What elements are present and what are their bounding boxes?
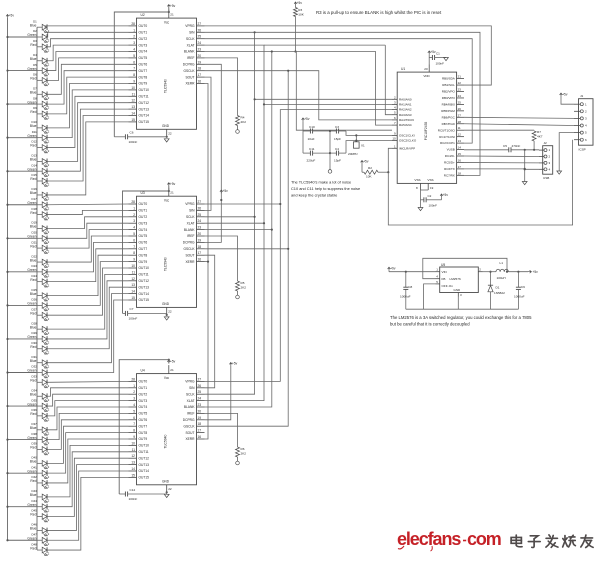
- U1 pin 5 RA3/AN3: [392, 111, 412, 117]
- IC U3 TLC5940 body: [137, 191, 197, 307]
- junction SIN U3: [254, 216, 256, 218]
- svg-text:OUT15: OUT15: [139, 476, 150, 480]
- wire LED D46 to U4 OUT13: [48, 465, 129, 531]
- U3 pin 1 OUT1: [129, 206, 148, 212]
- svg-text:D43: D43: [31, 489, 37, 493]
- svg-text:D47: D47: [31, 532, 37, 536]
- junction rail group 9: [6, 304, 8, 306]
- wire MCLR loop to ICSP: [388, 140, 572, 225]
- wire rail tap group 4: [8, 137, 38, 139]
- wire OFF-On to ground rail: [424, 284, 436, 309]
- svg-text:SIN: SIN: [189, 31, 195, 35]
- svg-text:Vcc: Vcc: [164, 20, 170, 24]
- svg-text:Blue: Blue: [30, 460, 37, 464]
- wire BLANK bus: [205, 52, 272, 408]
- svg-text:OUT7: OUT7: [139, 424, 148, 428]
- svg-text:RA1/AN1: RA1/AN1: [399, 103, 412, 107]
- U2 pin 22 GND stub: [167, 129, 172, 137]
- U1 pin 2 RA0/AN0: [392, 95, 412, 101]
- svg-text:SOUT: SOUT: [185, 253, 194, 257]
- svg-text:C2: C2: [428, 194, 432, 198]
- U1 pin 6 RA4/T0CKI: [392, 116, 414, 122]
- wire VDD to C1: [429, 54, 432, 64]
- junction rail group 8: [6, 271, 8, 273]
- svg-text:24: 24: [458, 94, 462, 98]
- U1 pin 28 RB7/PGD: [442, 120, 464, 126]
- wire ground rail: [406, 308, 519, 310]
- svg-text:RC4/D-: RC4/D-: [445, 154, 455, 158]
- svg-text:D20: D20: [31, 231, 37, 235]
- svg-text:SCLK: SCLK: [186, 392, 195, 396]
- J2 pin 4: [539, 167, 551, 171]
- svg-text:C12: C12: [130, 488, 136, 492]
- svg-text:21: 21: [170, 191, 174, 195]
- svg-text:100nF: 100nF: [129, 497, 138, 501]
- junction rail group 15: [6, 506, 8, 508]
- svg-text:Green: Green: [27, 100, 36, 104]
- svg-text:8: 8: [133, 251, 135, 255]
- power +5v DCPRG U2 U3: [220, 190, 223, 193]
- svg-text:D4: D4: [33, 53, 37, 57]
- wire regulator output: [508, 271, 528, 273]
- LED D35 (Green): [27, 398, 49, 411]
- U4 pin 16 XERR: [185, 435, 204, 441]
- svg-text:Red: Red: [30, 211, 36, 215]
- LED D6 (Red): [30, 73, 49, 86]
- svg-text:19: 19: [198, 238, 202, 242]
- svg-text:R6: R6: [241, 447, 245, 451]
- capacitor C12 100nF: [119, 488, 167, 501]
- svg-text:D30: D30: [31, 341, 37, 345]
- svg-text:Blue: Blue: [30, 91, 37, 95]
- svg-text:16: 16: [198, 80, 202, 84]
- U3 pin 18 GSCLK: [183, 245, 204, 251]
- svg-text:/MCLR/VPP: /MCLR/VPP: [399, 146, 415, 150]
- IC U5 LM2576 body: [440, 263, 479, 293]
- svg-text:Green: Green: [27, 268, 36, 272]
- svg-text:26: 26: [198, 206, 202, 210]
- U1 pin 3 RA1/AN1: [392, 100, 412, 106]
- svg-text:1: 1: [133, 206, 135, 210]
- svg-text:20: 20: [198, 54, 202, 58]
- U3 pin 11 OUT11: [129, 270, 149, 276]
- U1 pins 8 19 VSS stubs: [416, 183, 434, 190]
- svg-text:OUT6: OUT6: [139, 63, 148, 67]
- svg-text:Blue: Blue: [30, 191, 37, 195]
- wire U4 Vcc branch: [119, 360, 169, 494]
- junction R3 BLANK: [294, 50, 296, 52]
- svg-text:OUT12: OUT12: [139, 101, 150, 105]
- wire FB loop: [423, 258, 507, 278]
- junction C10 node: [329, 130, 331, 132]
- svg-text:17: 17: [458, 165, 462, 169]
- svg-text:Red: Red: [30, 479, 36, 483]
- U4 pin 13 OUT13: [129, 461, 150, 467]
- svg-text:D9: D9: [33, 106, 37, 110]
- svg-text:RA2/AN2: RA2/AN2: [399, 108, 412, 112]
- svg-text:28: 28: [131, 377, 135, 381]
- LED D20 (Green): [27, 231, 49, 244]
- LED D27 (Red): [30, 307, 49, 320]
- LED D30 (Red): [30, 341, 49, 354]
- LED D7 (Blue): [30, 87, 50, 100]
- wire R7 top to RC0: [464, 129, 534, 131]
- svg-text:R7: R7: [537, 130, 541, 134]
- svg-text:Blue: Blue: [30, 493, 37, 497]
- wire LED D44 to U4 OUT11: [48, 452, 129, 507]
- svg-text:Red: Red: [30, 345, 36, 349]
- svg-text:OUT3: OUT3: [139, 399, 148, 403]
- U1 pin 13 RC2/CCP1: [440, 139, 464, 145]
- wire XERR bus: [205, 84, 209, 440]
- wire rail tap group 11: [8, 372, 38, 374]
- wire SIN bus vertical: [205, 32, 255, 394]
- U2 pin 28 OUT0: [129, 22, 148, 28]
- svg-text:23: 23: [198, 403, 202, 407]
- svg-text:11: 11: [458, 126, 461, 130]
- J2 pin 1: [539, 148, 551, 152]
- wire GSCLK tap U3: [205, 248, 289, 250]
- svg-text:9: 9: [133, 435, 135, 439]
- U3 pin 12 OUT12: [129, 277, 150, 283]
- svg-text:RC1/T1OSI: RC1/T1OSI: [439, 135, 455, 139]
- U2 pin 11 OUT11: [129, 92, 149, 98]
- wire LED D27 to U3 OUT10: [48, 268, 129, 315]
- svg-text:com: com: [467, 529, 501, 549]
- wire LED D43 to U4 OUT10: [48, 445, 129, 497]
- capacitor C11 220uF: [303, 147, 330, 162]
- svg-text:C8: C8: [408, 285, 412, 289]
- svg-text:D15: D15: [31, 173, 37, 177]
- wire LED D48 to U4 OUT15: [48, 477, 129, 550]
- U3 pin 24 XLAT: [187, 219, 205, 225]
- watermark chinese text dian: [511, 535, 522, 547]
- svg-text:D1: D1: [496, 286, 500, 290]
- U1 pin 21 RB0/SDA: [442, 75, 464, 81]
- svg-text:4: 4: [133, 403, 135, 407]
- svg-text:OUT12: OUT12: [139, 456, 150, 460]
- svg-text:28: 28: [131, 200, 135, 204]
- svg-text:Green: Green: [27, 201, 36, 205]
- svg-text:17: 17: [198, 429, 202, 433]
- svg-text:RB3/VPO: RB3/VPO: [442, 96, 456, 100]
- U1 pin 25 RB4/KBI0: [442, 100, 464, 106]
- svg-text:RB0/SDA: RB0/SDA: [442, 77, 455, 81]
- svg-text:19: 19: [430, 186, 434, 190]
- note text LM2576: [390, 315, 532, 327]
- svg-text:OUT5: OUT5: [139, 412, 148, 416]
- junction C11 node: [329, 152, 331, 154]
- wire SOUT U3 to SIN U4: [205, 255, 215, 388]
- U2 pin 13 OUT13: [129, 105, 150, 111]
- U2 pin 15 OUT15: [129, 118, 150, 124]
- inductor L1 100uH: [483, 261, 509, 280]
- wire rail tap group 5: [8, 170, 38, 172]
- svg-text:GSCLK: GSCLK: [183, 424, 195, 428]
- IC U1 PIC18F2455 body: [397, 67, 456, 184]
- svg-text:VDD: VDD: [423, 74, 430, 78]
- svg-text:OUT7: OUT7: [139, 69, 148, 73]
- J1 pin 5: [574, 131, 587, 135]
- U4 pin 7 OUT7: [129, 422, 148, 428]
- svg-text:+5v: +5v: [223, 189, 229, 193]
- J2 pin 2: [539, 155, 551, 159]
- svg-text:15: 15: [131, 473, 135, 477]
- svg-text:RB6/PGC: RB6/PGC: [442, 115, 456, 119]
- svg-text:XERR: XERR: [185, 82, 195, 86]
- U3 pin 6 OUT6: [129, 238, 148, 244]
- svg-text:X1: X1: [361, 144, 365, 148]
- junction SIN RA0: [254, 98, 256, 100]
- U1 pin 23 RB2/VPO: [442, 88, 464, 94]
- U2 pin 26 SIN: [189, 28, 204, 34]
- svg-text:and keep the crystal stable: and keep the crystal stable: [291, 193, 337, 198]
- svg-text:OSC1/CLKI: OSC1/CLKI: [399, 134, 415, 138]
- U1 pin 17 RC6/TX: [444, 165, 464, 171]
- svg-text:OUT15: OUT15: [139, 120, 150, 124]
- svg-text:PIC18F2455: PIC18F2455: [424, 122, 428, 141]
- U1 pin 27 RB6/PGC: [442, 113, 464, 119]
- connector J1 ICSP: [579, 94, 594, 152]
- svg-text:220uF: 220uF: [307, 159, 316, 163]
- svg-text:17: 17: [198, 251, 202, 255]
- wire BLANK to PIC RA5: [272, 52, 392, 126]
- resistor R3 10K pullup: [294, 5, 305, 16]
- svg-text:Blue: Blue: [30, 359, 37, 363]
- svg-text:Red: Red: [30, 244, 36, 248]
- wire LED D11 to U2 OUT10: [48, 90, 129, 138]
- power +5v for U3: [167, 183, 170, 186]
- ground C5 J2: [522, 182, 527, 185]
- svg-text:11: 11: [132, 92, 136, 96]
- svg-text:5: 5: [133, 409, 135, 413]
- junction rail group 11: [6, 371, 8, 373]
- wire LED D24 to U3 OUT7: [48, 249, 129, 282]
- svg-text:C1: C1: [436, 52, 440, 56]
- U4 pin 15 OUT15: [129, 473, 150, 479]
- svg-text:Green: Green: [27, 469, 36, 473]
- svg-text:14: 14: [131, 290, 135, 294]
- svg-text:OUT10: OUT10: [139, 266, 150, 270]
- U4 pin 23 BLANK: [184, 403, 205, 409]
- svg-text:RA4/T0CKI: RA4/T0CKI: [399, 118, 414, 122]
- diode D1 1N5822: [488, 272, 505, 310]
- svg-text:D23: D23: [31, 264, 37, 268]
- svg-text:OUT6: OUT6: [139, 418, 148, 422]
- svg-text:Blue: Blue: [30, 292, 37, 296]
- U2 pin 5 OUT5: [129, 54, 148, 60]
- U2 pin 10 OUT10: [129, 86, 150, 92]
- wire LED D28 to U3 OUT11: [48, 274, 129, 329]
- J1 pin 3: [574, 117, 587, 121]
- svg-text:Blue: Blue: [30, 258, 37, 262]
- svg-text:27: 27: [198, 22, 202, 26]
- svg-text:19: 19: [198, 416, 202, 420]
- U4 pin 11 OUT11: [129, 448, 149, 454]
- svg-text:D19: D19: [31, 221, 37, 225]
- svg-text:6: 6: [133, 60, 135, 64]
- ground R6: [236, 461, 240, 465]
- wire LED D39 to U4 OUT6: [48, 420, 129, 450]
- wire LED D9 to U2 OUT8: [48, 77, 129, 114]
- svg-text:D3: D3: [33, 39, 37, 43]
- watermark chinese text you: [581, 535, 593, 547]
- U1 pin 26 RB5/PGM: [441, 107, 464, 113]
- svg-text:8: 8: [133, 429, 135, 433]
- wire DCPRG U4 +5v: [205, 366, 231, 420]
- svg-text:D10: D10: [31, 120, 37, 124]
- wire VPRG net U2 to PIC RB1 outer loop: [205, 26, 492, 85]
- svg-text:OUT2: OUT2: [139, 37, 148, 41]
- svg-text:D1: D1: [33, 19, 37, 23]
- svg-text:TLC5940: TLC5940: [164, 79, 168, 93]
- svg-text:OUT2: OUT2: [139, 392, 148, 396]
- svg-text:D44: D44: [31, 499, 37, 503]
- U4 pin 28 OUT0: [129, 377, 148, 383]
- connector J2 USB: [543, 141, 553, 180]
- wire RC4 D- to J2 pin2: [464, 155, 539, 158]
- svg-text:GND: GND: [162, 302, 170, 306]
- svg-text:U3: U3: [141, 191, 145, 195]
- junction rail group 5: [6, 170, 8, 172]
- svg-text:14: 14: [131, 467, 135, 471]
- svg-text:16: 16: [198, 258, 202, 262]
- U4 pin 14 OUT14: [129, 467, 150, 473]
- svg-text:1000uF: 1000uF: [514, 295, 525, 299]
- svg-text:D16: D16: [31, 187, 37, 191]
- LED D19 (Blue): [30, 221, 50, 234]
- svg-text:OUT15: OUT15: [139, 298, 150, 302]
- junction J2 gnd: [524, 168, 526, 170]
- svg-text:RB1/SCL: RB1/SCL: [442, 83, 455, 87]
- svg-text:Vcc: Vcc: [164, 376, 170, 380]
- svg-text:100nF: 100nF: [129, 316, 138, 320]
- wire DCPRG chain U2-U3: [205, 64, 222, 242]
- svg-text:28: 28: [458, 120, 462, 124]
- LED D46 (Blue): [30, 523, 50, 536]
- LED D22 (Blue): [30, 254, 50, 267]
- svg-text:Blue: Blue: [30, 158, 37, 162]
- resistor R6 2K2: [205, 413, 247, 461]
- wire LED D29 to U3 OUT12: [48, 281, 129, 339]
- wire RC6 TX to vertical: [464, 168, 525, 170]
- junction rail group 16: [6, 539, 8, 541]
- svg-text:12: 12: [131, 454, 135, 458]
- svg-text:12: 12: [131, 99, 135, 103]
- power +5v for U2: [167, 5, 170, 8]
- svg-text:16: 16: [198, 435, 202, 439]
- U3 pin 14 OUT14: [129, 290, 150, 296]
- U2 pin 8 OUT8: [129, 73, 148, 79]
- svg-text:27: 27: [198, 200, 202, 204]
- svg-text:OUT8: OUT8: [139, 431, 148, 435]
- svg-text:21: 21: [170, 13, 174, 17]
- svg-text:100nF: 100nF: [436, 62, 445, 66]
- svg-text:OFF-On: OFF-On: [442, 284, 454, 288]
- svg-text:U1: U1: [401, 67, 405, 71]
- svg-text:D35: D35: [31, 398, 37, 402]
- wire R3 to BLANK net: [295, 17, 297, 52]
- U2 pin 6 OUT6: [129, 60, 148, 66]
- U3 pin 28 OUT0: [129, 200, 148, 206]
- wire PGC RB6 to J1 pin3: [464, 117, 574, 118]
- U4 pin 2 OUT2: [129, 390, 148, 396]
- wire LED D6 to U2 OUT5: [48, 58, 129, 80]
- svg-text:OUT3: OUT3: [139, 43, 148, 47]
- U3 pin 10 OUT10: [129, 264, 150, 270]
- wire LED D40 to U4 OUT7: [48, 426, 129, 463]
- svg-text:XERR: XERR: [185, 437, 195, 441]
- svg-text:BLANK: BLANK: [184, 228, 195, 232]
- svg-text:14: 14: [458, 146, 462, 150]
- resistor R5 2K2: [205, 236, 247, 295]
- U3 pin 27 VPRG: [185, 200, 204, 206]
- wire C6 to GND node: [166, 136, 168, 138]
- wire rail tap group 1: [8, 36, 38, 38]
- svg-text:D48: D48: [31, 542, 37, 546]
- svg-text:13: 13: [458, 139, 462, 143]
- wire VSS down: [420, 190, 422, 208]
- ground crystal node: [328, 170, 332, 174]
- wire VPRG tap U4: [205, 204, 281, 381]
- U1 pin 9 OSC1/CLKI: [392, 131, 415, 137]
- wire LED D42 to U4 OUT9: [48, 439, 129, 483]
- svg-text:+5v: +5v: [297, 1, 303, 5]
- svg-text:24: 24: [198, 219, 202, 223]
- svg-text:LM2576: LM2576: [450, 277, 461, 281]
- wire LED D30 to U3 OUT13: [48, 287, 129, 349]
- svg-text:D2: D2: [33, 29, 37, 33]
- capacitor C9 1000uF: [514, 272, 525, 310]
- ground VSS: [418, 208, 423, 211]
- junction BLANK U3: [271, 229, 273, 231]
- svg-text:BLANK: BLANK: [184, 50, 195, 54]
- svg-text:OUT13: OUT13: [139, 285, 150, 289]
- power +5v C2: [441, 198, 443, 200]
- svg-text:13: 13: [131, 105, 135, 109]
- LED D47 (Green): [27, 532, 49, 545]
- wire rail tap group 3: [8, 103, 38, 105]
- svg-text:R4: R4: [241, 116, 245, 120]
- svg-text:D21: D21: [31, 240, 37, 244]
- svg-text:10: 10: [131, 86, 135, 90]
- wire SCLK net U2 to PIC RC2 loop: [205, 39, 473, 143]
- svg-text:RA3/AN3: RA3/AN3: [399, 113, 412, 117]
- wire LED D14 to U2 OUT13: [48, 109, 129, 171]
- svg-text:Red: Red: [30, 311, 36, 315]
- svg-text:Red: Red: [30, 446, 36, 450]
- svg-text:+5v: +5v: [443, 193, 449, 197]
- svg-text:OUT12: OUT12: [139, 279, 150, 283]
- wire LED D17 to U3 OUT0: [48, 203, 129, 206]
- svg-text:10: 10: [131, 441, 135, 445]
- wire LED D18 to U3 OUT1: [48, 210, 129, 214]
- svg-text:4: 4: [133, 48, 135, 52]
- junction U4 GND node: [166, 491, 168, 493]
- svg-text:SIN: SIN: [189, 209, 195, 213]
- wire XLAT to PIC RA1: [264, 103, 392, 105]
- svg-text:L1: L1: [500, 261, 504, 265]
- note text TLC5940 noise: [291, 180, 360, 198]
- wire LED D5 to U2 OUT4: [48, 52, 129, 71]
- LED D13 (Blue): [30, 154, 50, 167]
- U1 pin 1 /MCLR/VPP: [392, 144, 415, 150]
- LED D16 (Blue): [30, 187, 50, 200]
- svg-text:+5v: +5v: [304, 117, 310, 121]
- power +5v crystal section: [302, 118, 305, 121]
- svg-text:15pF: 15pF: [334, 137, 341, 141]
- svg-text:23: 23: [198, 48, 202, 52]
